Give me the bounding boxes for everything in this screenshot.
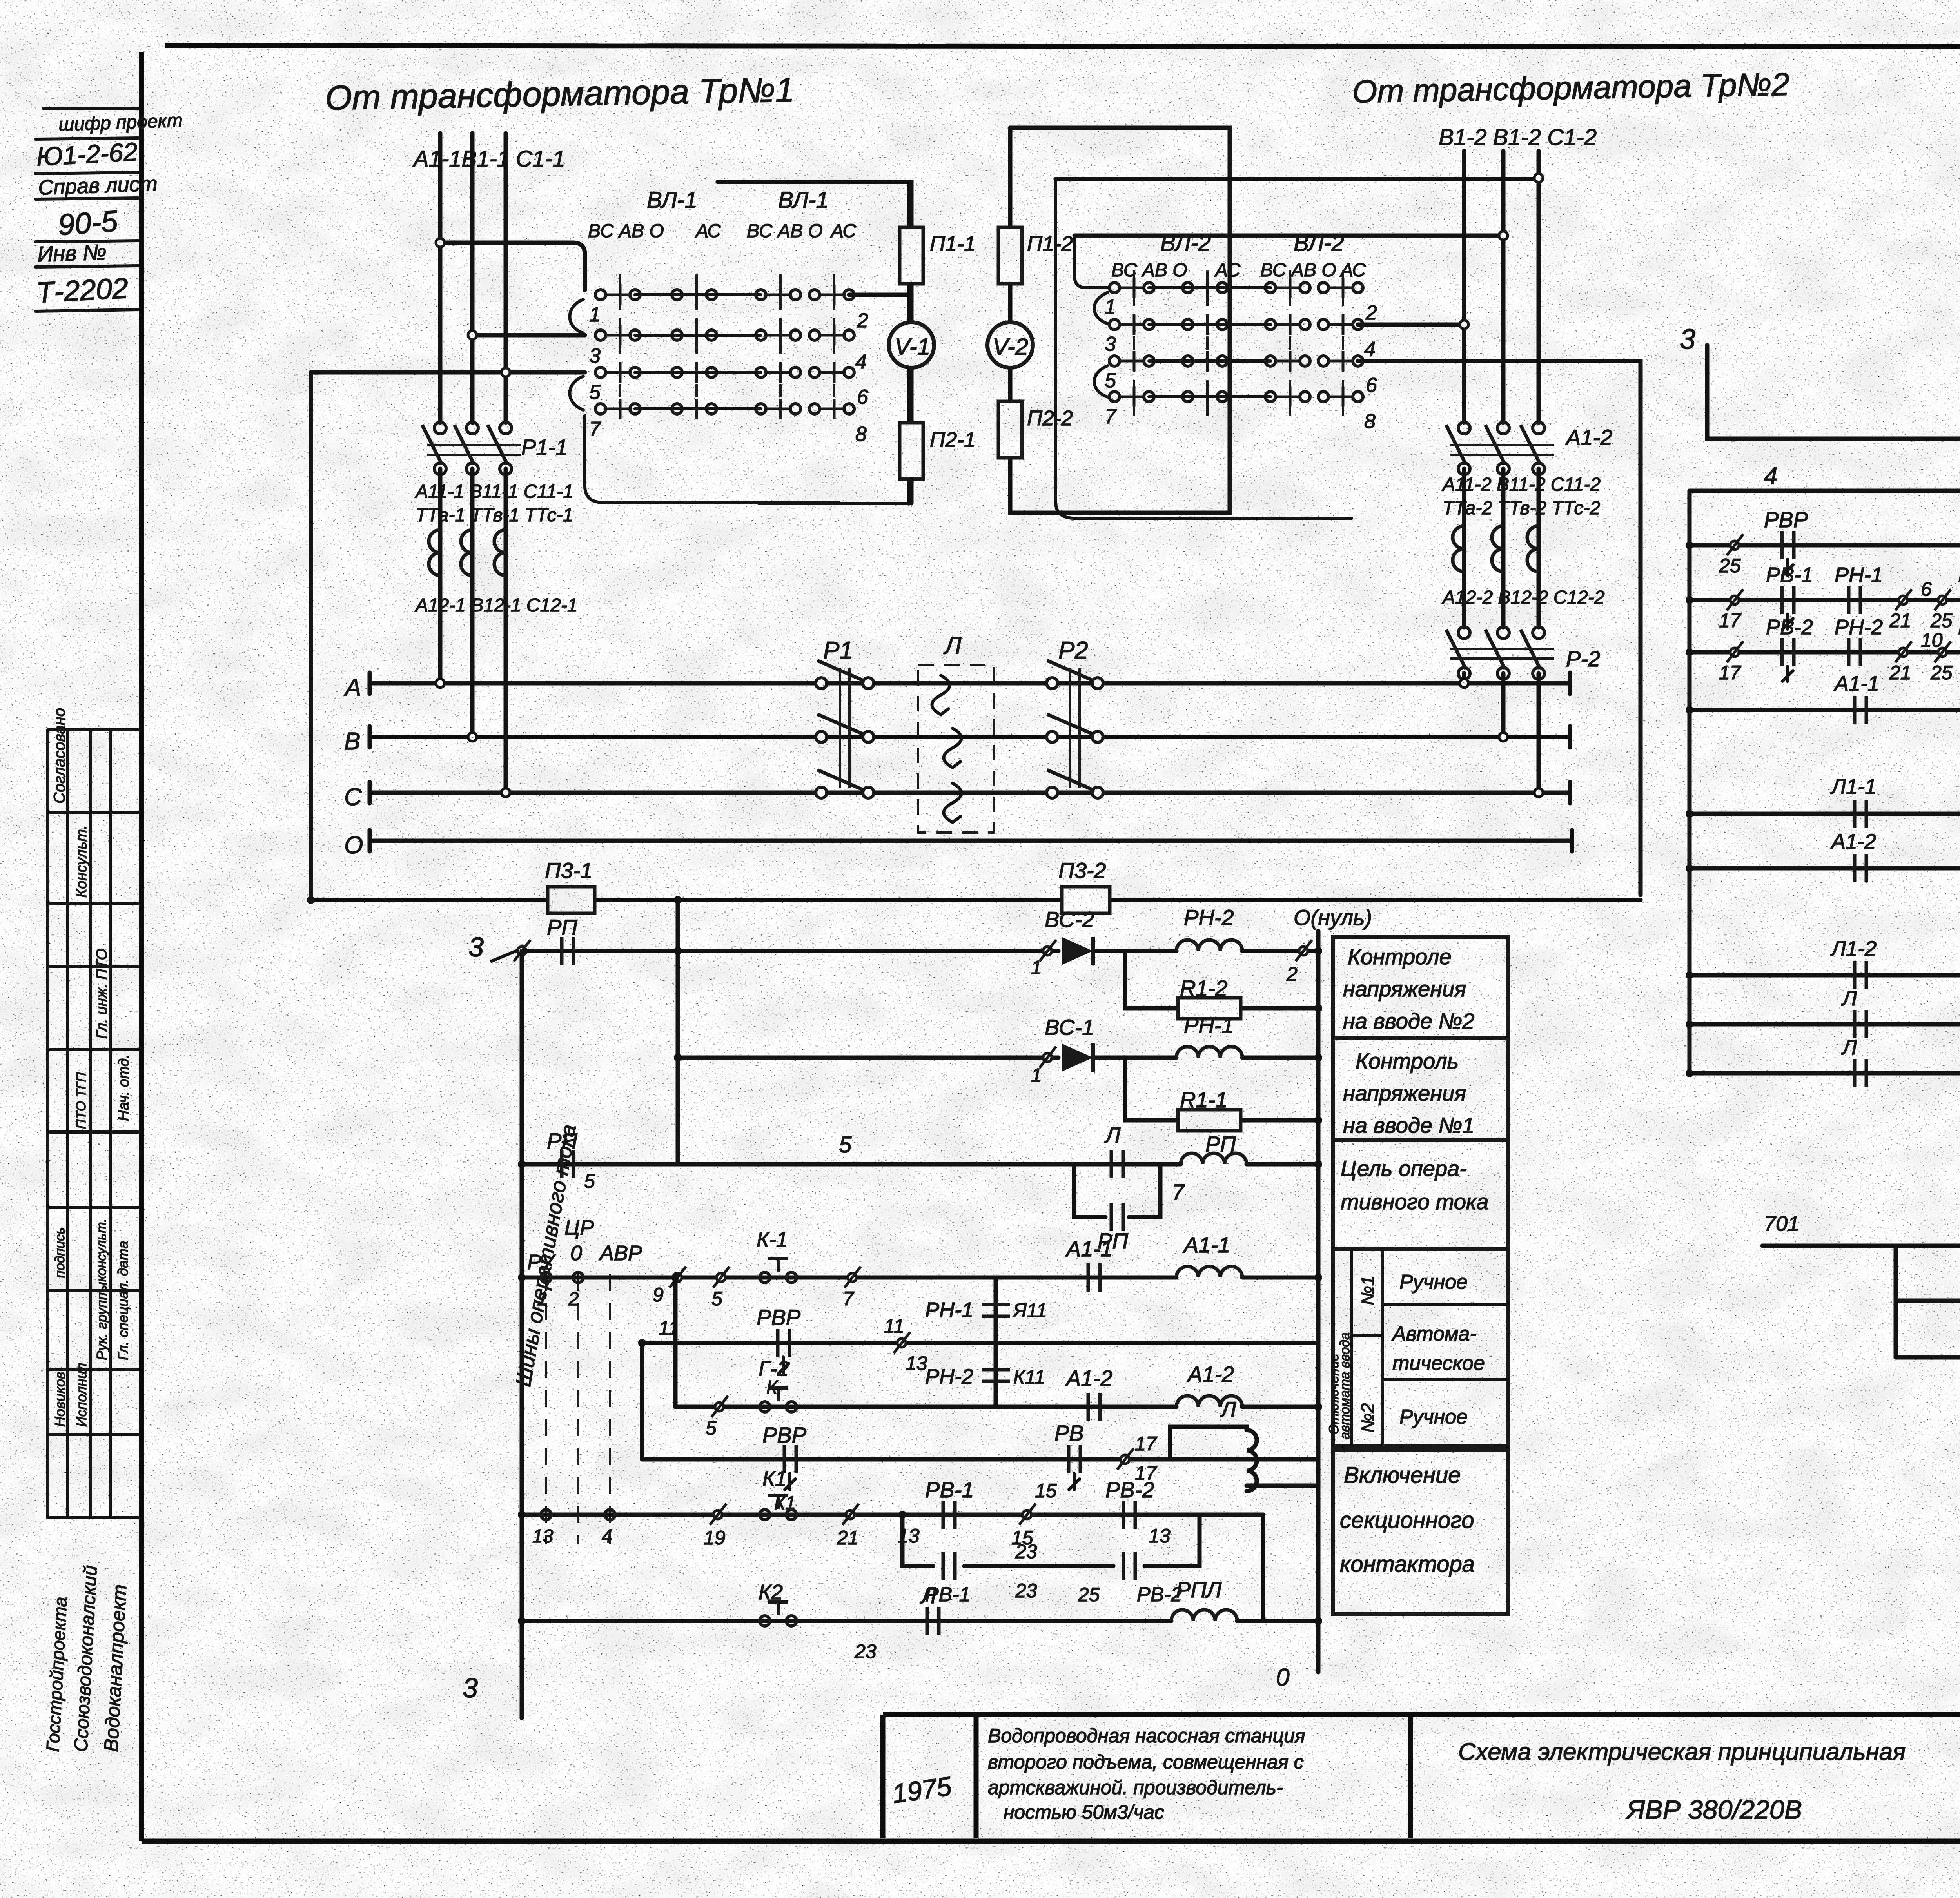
node 17	[1117, 1448, 1134, 1470]
coil A1-2	[1176, 1396, 1242, 1407]
crossbar P-2	[1450, 648, 1554, 650]
rung r3	[1690, 600, 1960, 652]
CT TTc-1	[494, 530, 506, 575]
voltmeter V-2	[987, 322, 1033, 368]
slash 21	[842, 1504, 859, 1525]
wire fuse P2-1 down to switch bottom	[909, 479, 914, 503]
alarm branch vertical left	[1894, 1246, 1898, 1357]
wire phase B1-2	[1501, 151, 1506, 423]
feeder rail from fuse line	[676, 900, 680, 1164]
rung7 wire	[642, 1457, 1318, 1462]
contactor P2 pole C	[1047, 770, 1103, 798]
thermal relay L box	[918, 665, 994, 833]
button K-1	[760, 1259, 797, 1283]
rung2 wire	[678, 1056, 1318, 1060]
jumper poles 5-7	[570, 376, 584, 410]
left rail	[1688, 491, 1692, 1073]
wire top loop to fuse P1-1	[718, 182, 911, 227]
junction wire2 bus B	[468, 733, 477, 741]
wire row1 to fuse column	[849, 293, 909, 297]
vertical 11	[640, 1343, 644, 1459]
contact L1-1 r6	[1855, 800, 1866, 828]
contact RP2 rung3	[562, 1150, 573, 1178]
wire P-2 to buses	[1464, 673, 1539, 793]
contactor P1 pole A	[816, 660, 874, 689]
linkage P1	[839, 668, 841, 788]
rung r1	[1690, 543, 1960, 548]
switch body box left	[585, 416, 839, 503]
fuse PZ-2	[1062, 887, 1110, 913]
jumper poles 1-3	[570, 299, 584, 333]
CT TTb-1	[461, 530, 472, 575]
selector contact 13	[541, 1510, 551, 1520]
side table frame	[46, 730, 49, 1518]
contact RV rung7	[1069, 1445, 1080, 1473]
selector dashed lines	[545, 1274, 547, 1544]
junction wire3 bus C	[501, 788, 510, 797]
rung6 wire	[675, 1405, 1318, 1409]
wire P1-1 to CT	[440, 469, 506, 793]
node 1 rung2	[1040, 1047, 1056, 1068]
rung r6	[1690, 812, 1960, 816]
disconnector P1-2 pole C	[1521, 422, 1544, 475]
contactor P2 pole A	[1047, 660, 1103, 689]
heater C	[944, 783, 962, 822]
packet2 row2	[1109, 314, 1154, 335]
heater B	[944, 728, 962, 768]
coil RPL	[1171, 1610, 1237, 1621]
wire branch row3	[311, 370, 585, 375]
contact RN-1 r2	[1849, 586, 1860, 614]
disconnector P-2 pole A	[1446, 627, 1470, 679]
node C1-1 row3	[501, 368, 510, 377]
node 9	[670, 1267, 686, 1288]
alarm rung3	[1896, 1355, 1960, 1360]
box operative circuit	[1333, 1140, 1508, 1249]
button G-2	[760, 1388, 797, 1412]
wire P1-2 down	[1464, 469, 1539, 627]
node A1-1 row1	[436, 238, 445, 247]
wire left loop	[309, 372, 313, 900]
left rail bus operative	[520, 951, 524, 1718]
selector contact 2	[573, 1272, 583, 1283]
fuse P2-1	[900, 423, 923, 479]
box switching on contactor	[1333, 1450, 1508, 1614]
linkage dashes	[619, 274, 621, 427]
disconnector P-2 pole C	[1521, 627, 1544, 679]
title block frame	[883, 1712, 1960, 1717]
disconnector P1-1 pole C	[488, 422, 512, 475]
contact RVR r1	[1782, 531, 1794, 559]
voltmeter V-1 wire	[909, 284, 914, 422]
parallel RV branch	[902, 1515, 1200, 1566]
bus O	[370, 830, 1572, 851]
diode VS-2	[1062, 937, 1093, 965]
wire phase C1-2	[1537, 151, 1541, 423]
inner box left	[1074, 236, 1109, 288]
wire branch C1-2 row	[1056, 177, 1539, 181]
junction input2 wire3 bus C	[1534, 788, 1543, 797]
contact A1-1 rung4	[1088, 1263, 1100, 1292]
node B1-2	[1499, 231, 1508, 240]
slash 5 rung6	[711, 1396, 728, 1417]
CT TTb-2	[1492, 526, 1503, 572]
slash 15	[1019, 1504, 1036, 1525]
node B1-1 row2	[468, 331, 477, 339]
ladder top	[1690, 489, 1960, 493]
border top	[165, 45, 1960, 47]
packet2 row1	[1109, 278, 1154, 298]
disconnector P1-2 pole B	[1485, 422, 1509, 475]
junction wire1 bus A	[436, 679, 445, 688]
selector contact 1	[541, 1272, 551, 1283]
diode VS-1	[1062, 1043, 1093, 1072]
switch body box right	[718, 182, 909, 503]
rung5 wire	[642, 1341, 1318, 1345]
rung1 wire	[522, 949, 1318, 953]
contact A1-2 rung6	[1088, 1393, 1100, 1421]
wire branch B1-2 row	[1074, 234, 1503, 238]
contact RV-1 r2	[1782, 586, 1794, 614]
fuse L1-2 wire top	[1008, 128, 1013, 401]
node 2 rung1 right	[1296, 940, 1312, 961]
outer box top	[1010, 128, 1230, 513]
wire branch A1-2 row	[1358, 323, 1464, 327]
packet row1	[595, 285, 640, 305]
linkage P2	[1069, 668, 1071, 788]
rung9 wire	[522, 1619, 1318, 1623]
rung r11	[1690, 1071, 1960, 1076]
wire phase A1-2	[1462, 151, 1466, 423]
contact RV-2 rung8	[1123, 1501, 1135, 1529]
coil RP	[1181, 1153, 1247, 1164]
box control voltage input1	[1333, 1038, 1508, 1140]
wire 3 down	[1707, 345, 1960, 439]
slash 5	[713, 1267, 730, 1288]
rung4 wire	[522, 1276, 1318, 1280]
rung r9	[1690, 973, 1960, 978]
contact RVR rung7	[784, 1445, 796, 1473]
rung r10	[1690, 1022, 1960, 1027]
fuse P2-2	[998, 401, 1022, 458]
crossbar P1-2	[1450, 444, 1554, 446]
vertical from node9	[673, 1277, 678, 1407]
crossbar P1-1	[427, 444, 521, 446]
parallel R1-1 branch	[1125, 1058, 1318, 1120]
node 3 left rail start	[514, 940, 530, 961]
CT TTa-2	[1453, 526, 1464, 572]
voltmeter V-1	[889, 322, 934, 368]
node A1-2	[1460, 320, 1468, 329]
right rail O	[1316, 931, 1321, 1672]
contact L r11	[1855, 1059, 1866, 1087]
CT TTa-1	[429, 530, 440, 575]
node C1-2	[1534, 174, 1543, 182]
contactor P1 pole B	[816, 714, 874, 742]
border bottom	[142, 1839, 1960, 1844]
packet row4	[595, 399, 640, 419]
bus C	[370, 782, 1570, 803]
contact RN-2 vertical	[994, 1343, 998, 1407]
coil RN-2	[1176, 940, 1242, 951]
jumper2 poles 1-3	[1094, 292, 1108, 324]
parallel RP contact branch	[1074, 1164, 1160, 1217]
wire phase A1-1	[438, 133, 443, 423]
selector contact 4	[605, 1510, 615, 1520]
resistor R1-2	[1178, 998, 1241, 1019]
operative line with fuses	[311, 898, 1641, 902]
contact RVR rung5	[778, 1329, 789, 1357]
disconnector P-2 pole B	[1485, 627, 1509, 679]
contact L rung3	[1111, 1150, 1123, 1178]
contact L1-2 r9	[1855, 961, 1866, 989]
rung r4	[1690, 708, 1960, 712]
border left	[139, 52, 144, 1841]
wire phase C1-1	[504, 133, 508, 423]
coil A1-1	[1176, 1267, 1242, 1277]
alarm wire top	[1762, 1244, 1960, 1248]
packet2 bottom loop	[1056, 179, 1352, 518]
CT TTc-2	[1527, 526, 1539, 572]
packet2 row3	[1109, 351, 1154, 371]
rung r7	[1690, 866, 1960, 871]
bus end ticks	[1570, 673, 1572, 851]
wire phase B1-1	[470, 133, 475, 423]
rung r2	[1690, 598, 1960, 602]
bus B	[370, 726, 1570, 748]
slash 7	[844, 1267, 861, 1288]
linkage dashes packet2	[1133, 270, 1135, 416]
junction input2 wire1 bus A	[1460, 679, 1468, 688]
contactor P1 pole C	[816, 770, 874, 798]
rung8 wire	[522, 1513, 1263, 1517]
stamp lines	[43, 107, 138, 110]
parallel R1-2 branch	[1125, 951, 1318, 1008]
coil L bracket	[1152, 1427, 1318, 1491]
contact RN-2 r3	[1849, 638, 1860, 666]
wire branch row2	[472, 333, 585, 338]
contactor P2 pole B	[1047, 714, 1103, 742]
rung3 wire	[522, 1162, 1318, 1167]
alarm rung2	[1896, 1246, 1960, 1301]
fuse P1-1	[900, 227, 923, 284]
packet2 row4	[1109, 386, 1154, 407]
fuse PZ-1	[548, 887, 595, 913]
fuse L1-2	[998, 227, 1022, 284]
node 1 rung1	[1040, 940, 1056, 961]
junction input2 wire2 bus B	[1499, 733, 1508, 741]
contact RN-1 vertical	[994, 1277, 998, 1343]
disconnector P1-2 pole A	[1446, 422, 1470, 475]
contact RV-1 rung8	[943, 1501, 955, 1529]
resistor R1-1	[1178, 1110, 1241, 1131]
heater A	[932, 675, 950, 715]
bus A	[370, 673, 1570, 694]
contact A1-1 r4	[1855, 696, 1866, 724]
disconnector P1-1 pole A	[422, 422, 446, 475]
disconnector P1-1 pole B	[454, 422, 478, 475]
button K1	[760, 1496, 797, 1520]
contact A1-2 r7	[1855, 854, 1866, 882]
button K2	[760, 1602, 797, 1626]
contact L rung9	[927, 1607, 939, 1635]
contact L r10	[1855, 1010, 1866, 1038]
jumper2 poles 5-7	[1094, 366, 1108, 397]
table switching off	[1333, 1249, 1508, 1446]
box control voltage input2	[1333, 937, 1508, 1038]
packet row3	[595, 362, 640, 383]
packet row2	[595, 325, 640, 345]
wire branch row1	[440, 243, 585, 290]
slash 19	[710, 1504, 726, 1525]
rung8 to rung9 vertical	[1261, 1515, 1265, 1621]
coil RN-1	[1176, 1047, 1242, 1058]
contact RP rung1	[562, 937, 573, 965]
contact RV-2 r3	[1782, 638, 1794, 666]
wire operative feed to node 3	[1358, 361, 1641, 895]
